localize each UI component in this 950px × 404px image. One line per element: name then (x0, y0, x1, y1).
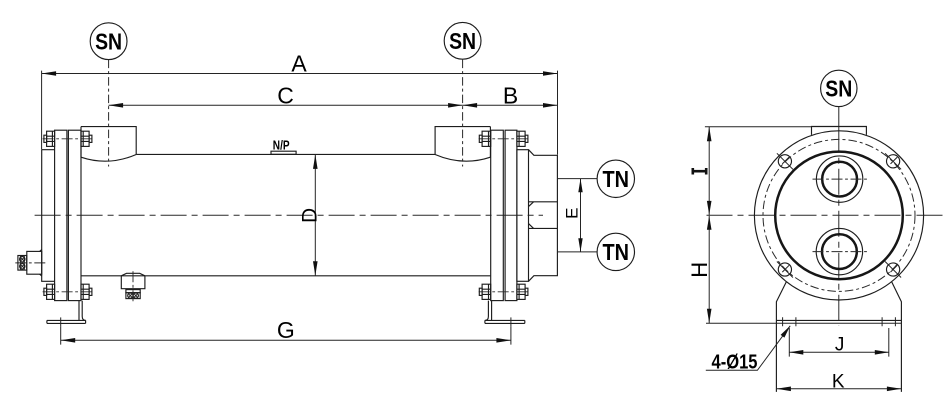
svg-text:A: A (291, 50, 307, 76)
note 4-Ø15 with leader (706, 326, 790, 374)
foot slot left (783, 317, 796, 326)
TN callout bottom (597, 233, 634, 270)
svg-text:G: G (277, 317, 295, 343)
shell body top line (136, 153, 435, 155)
bolt bottom-left (43, 284, 93, 299)
left foot bracket (47, 301, 86, 327)
pedestal foot (706, 282, 901, 392)
dimension G (61, 317, 511, 344)
svg-text:J: J (835, 334, 845, 355)
SN callout end view (821, 70, 857, 126)
svg-text:SN: SN (449, 28, 476, 54)
bolt top-left (43, 131, 93, 146)
svg-text:H: H (687, 262, 712, 278)
dimension E (562, 179, 582, 252)
left flange plate 2 (68, 130, 81, 300)
dimension H (687, 216, 712, 324)
bolt hole bottom-left (777, 262, 793, 278)
foot slot right (882, 317, 895, 326)
dimension C (109, 82, 463, 108)
bolt hole bottom-right (885, 262, 901, 278)
right flange plate 1 (491, 130, 504, 300)
svg-text:C: C (277, 82, 294, 108)
SN centerline left (108, 60, 110, 167)
right saddle boss (435, 127, 490, 162)
shell centerline (35, 214, 543, 216)
svg-text:B: B (503, 82, 518, 108)
svg-text:TN: TN (603, 166, 630, 192)
dimension J (789, 328, 889, 357)
dimension B (463, 82, 558, 108)
nameplate (271, 151, 296, 154)
svg-text:SN: SN (825, 76, 852, 102)
right foot bracket (485, 301, 525, 327)
bolt circle (centerline) (763, 139, 915, 291)
right bonnet boss with nozzles (529, 150, 558, 282)
left flange plate 1 (55, 130, 67, 300)
svg-text:D: D (299, 208, 322, 223)
bottom port (813, 228, 868, 274)
svg-text:TN: TN (603, 239, 630, 265)
top port (813, 156, 868, 202)
bolt top-right (479, 131, 529, 146)
dimension D (299, 154, 322, 275)
SN callout left (90, 23, 127, 60)
bolt bottom-right (479, 284, 529, 299)
SN callout right (444, 22, 481, 59)
TN callout top (597, 160, 634, 197)
dimension I (692, 127, 812, 215)
SN centerline right (462, 60, 464, 167)
shell bore circle (775, 152, 903, 280)
bottom drain boss (121, 271, 145, 301)
svg-text:E: E (562, 208, 581, 219)
dimension A (42, 50, 558, 154)
left saddle boss (81, 127, 136, 162)
top boss seen from end (812, 127, 867, 135)
end view vertical centerline (838, 127, 840, 326)
right bonnet plate (517, 150, 529, 282)
left end cover (42, 150, 55, 282)
svg-text:K: K (832, 371, 845, 392)
TN nozzle leader bottom (557, 251, 597, 253)
svg-text:N/P: N/P (273, 138, 290, 153)
flange outer circle (754, 131, 923, 300)
end view horizontal centerline (707, 214, 948, 216)
dimension K (776, 371, 901, 392)
left side plug (15, 250, 47, 277)
svg-text:SN: SN (95, 28, 122, 54)
right flange plate 2 (505, 130, 517, 300)
bolt hole top-right (885, 153, 901, 169)
TN nozzle leader top (557, 178, 597, 180)
shell body bottom line (81, 275, 490, 277)
bolt hole top-left (777, 153, 793, 169)
